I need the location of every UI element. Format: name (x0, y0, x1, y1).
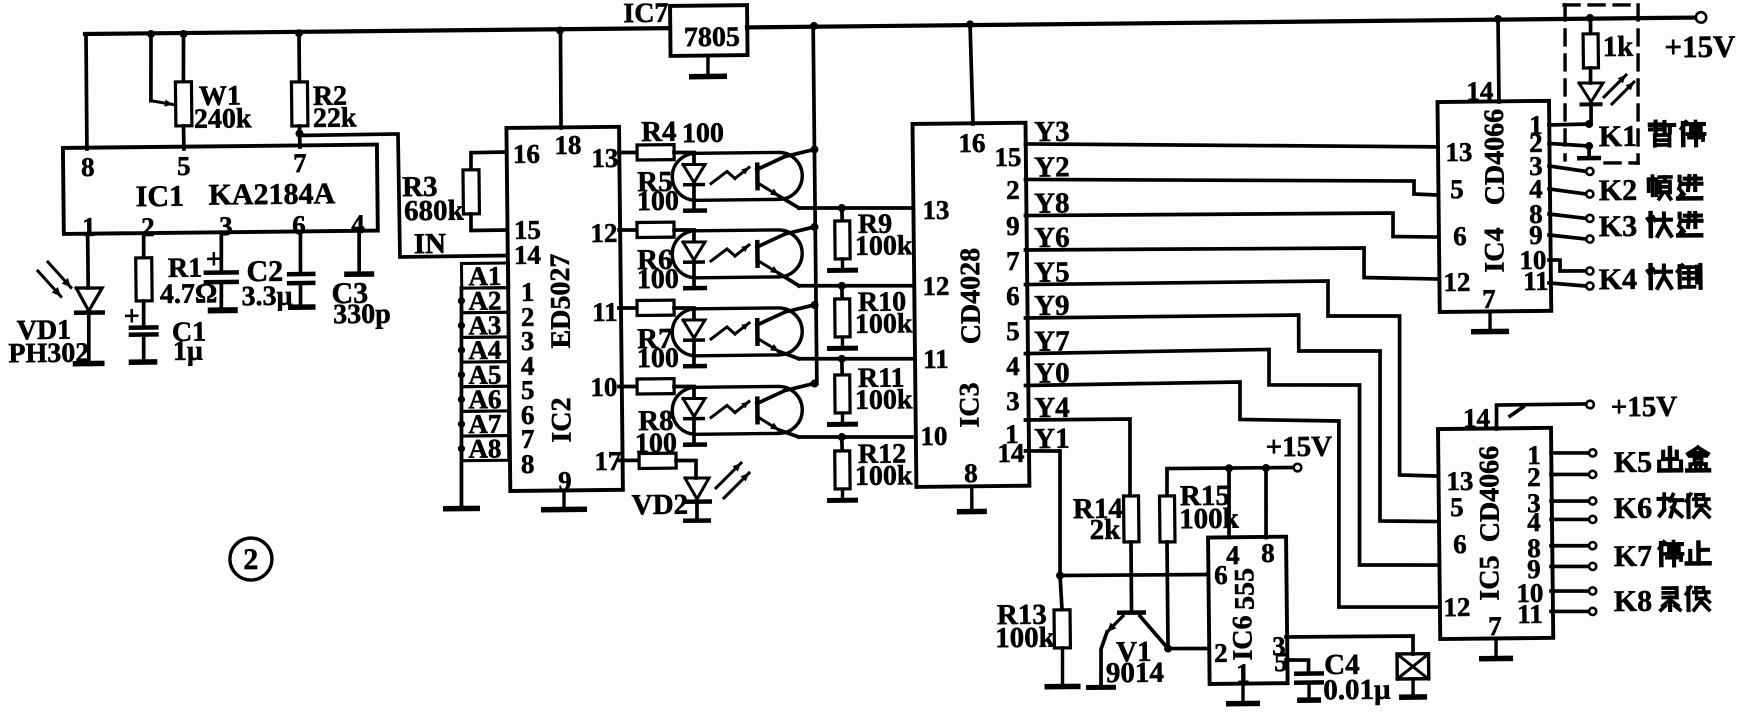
label K3 fast forward (1599, 209, 1702, 243)
terminal IC5 wire 2 (1551, 471, 1596, 479)
svg-text:8: 8 (1261, 538, 1275, 568)
svg-text:+15V: +15V (1611, 391, 1678, 424)
address box A4 (461, 335, 508, 366)
svg-text:100k: 100k (855, 230, 913, 262)
label K5 eject (1614, 445, 1710, 479)
resistor R7 100 (618, 323, 679, 394)
terminal IC5 wire 4 (1551, 516, 1596, 524)
svg-text:1k: 1k (1602, 31, 1634, 63)
terminal IC4 pin wire 3 (1549, 165, 1593, 175)
terminal IC5 wire 1 (1551, 449, 1596, 457)
svg-text:IC6: IC6 (1227, 615, 1258, 660)
wire +15V top rail (85, 17, 1695, 35)
ground IC5 pin7 (1479, 639, 1513, 662)
resistor R8 100 (618, 405, 677, 469)
wire V1 collector to IC6 pin2 (1168, 646, 1208, 651)
terminal IC5 wire 3 (1551, 497, 1596, 505)
svg-text:18: 18 (554, 130, 581, 160)
terminal IC4 pin wire 8 (1549, 282, 1593, 290)
svg-text:14: 14 (997, 438, 1024, 468)
optocoupler row 4 (672, 384, 815, 448)
svg-text:14: 14 (514, 240, 541, 270)
node V1 collector (1164, 645, 1172, 653)
svg-text:12: 12 (1443, 267, 1470, 297)
ground IC6 pin1 (1226, 684, 1260, 707)
svg-text:240k: 240k (194, 103, 252, 135)
figure number 2 circled (230, 538, 272, 580)
resistor R5 100 (618, 166, 679, 238)
svg-text:IC1: IC1 (135, 180, 184, 214)
svg-text:13: 13 (591, 143, 618, 173)
ground IC4 pin7 (1471, 312, 1509, 335)
wire opto3 emitter to IC3 (799, 358, 912, 360)
svg-text:10: 10 (590, 372, 617, 402)
svg-text:9014: 9014 (1106, 657, 1164, 690)
wire Y1 (1025, 423, 1071, 576)
svg-text:CD4066: CD4066 (1474, 446, 1506, 543)
svg-text:5: 5 (177, 151, 191, 181)
node rail-1k (1586, 14, 1594, 22)
svg-text:680k: 680k (404, 195, 465, 228)
svg-text:100: 100 (682, 118, 724, 149)
svg-text:K6: K6 (1614, 492, 1653, 525)
wire Y2 (1025, 147, 1438, 199)
label K6 play (1614, 491, 1710, 525)
capacitor on IC1 pin6 (286, 232, 316, 310)
svg-text:+: + (124, 301, 140, 332)
svg-text:Y1: Y1 (1034, 423, 1070, 455)
terminal IC4 pin wire 4 (1549, 188, 1593, 198)
capacitor C4 0.01u (1286, 648, 1391, 706)
node R2 bottom junction (295, 129, 303, 137)
svg-text:2: 2 (1006, 175, 1020, 205)
led K1 indicator (1579, 68, 1635, 125)
wire Y7 (1025, 321, 1438, 569)
optocoupler row 3 (672, 305, 815, 369)
label K4 rewind (1599, 262, 1701, 296)
svg-text:Y2: Y2 (1034, 151, 1070, 183)
terminal IC5 wire 6 (1551, 563, 1596, 571)
resistor R2 22k (291, 32, 357, 147)
svg-text:100: 100 (637, 264, 679, 295)
label K7 stop (1614, 539, 1710, 573)
svg-text:+: + (206, 244, 222, 275)
terminal IC5 wire 5 (1551, 542, 1596, 550)
svg-text:4: 4 (1006, 351, 1020, 381)
svg-text:12: 12 (922, 271, 949, 301)
ground IC3 pin8 (957, 487, 987, 515)
svg-text:IC3: IC3 (954, 382, 985, 427)
svg-text:11: 11 (1523, 266, 1549, 296)
node rail-IC4pin14 (1494, 15, 1502, 23)
wire IC3 pin16 to rail (970, 24, 973, 124)
terminal IC4 pin wire 5 (1549, 213, 1593, 222)
svg-text:Y7: Y7 (1034, 325, 1070, 357)
svg-text:100k: 100k (855, 308, 913, 340)
wire Y3 (1025, 112, 1438, 151)
wire +15V local rail IC6 (1167, 431, 1333, 473)
label K1 pause (1599, 119, 1705, 153)
wire IC6 pin8 to +15V (1265, 468, 1266, 538)
node opto3 collector (810, 301, 818, 309)
svg-text:11: 11 (923, 344, 949, 374)
node opto2 collector (810, 223, 818, 231)
address box A5 (461, 359, 508, 390)
node Y1 junction (1056, 571, 1064, 579)
svg-text:Y5: Y5 (1034, 256, 1070, 288)
svg-text:7: 7 (1006, 246, 1020, 276)
svg-text:3: 3 (1006, 386, 1020, 416)
svg-text:IC2: IC2 (546, 397, 577, 442)
svg-text:IC5: IC5 (1474, 555, 1505, 600)
svg-text:Y8: Y8 (1034, 187, 1070, 219)
svg-text:100k: 100k (855, 460, 913, 492)
label K2 frame advance (1599, 173, 1702, 207)
svg-text:K1: K1 (1599, 120, 1638, 153)
capacitor C2 3.3u (pin3 electrolytic) (203, 233, 239, 314)
svg-text:Y9: Y9 (1034, 290, 1070, 322)
wire IC5 pin14 to +15V terminal (1496, 391, 1677, 429)
svg-text:11: 11 (592, 297, 618, 327)
terminal IC4 pin wire 7 (1549, 259, 1593, 275)
address box A7 (461, 409, 508, 440)
svg-text:5: 5 (1450, 492, 1464, 522)
svg-text:3.3μ: 3.3μ (241, 281, 292, 313)
ground IC2 pin9 (541, 491, 587, 513)
svg-text:22k: 22k (313, 102, 357, 133)
address box A1 (461, 261, 508, 292)
svg-text:16: 16 (513, 139, 540, 169)
svg-text:14: 14 (1463, 403, 1490, 433)
node opto1 collector (810, 145, 818, 153)
svg-text:KA2184A: KA2184A (208, 177, 335, 211)
capacitor C3 330p (331, 231, 391, 331)
svg-text:11: 11 (1517, 599, 1543, 629)
resistor R4 100 (619, 115, 725, 160)
address box A3 (461, 310, 508, 341)
svg-text:Y3: Y3 (1034, 116, 1070, 148)
svg-text:K2: K2 (1599, 174, 1638, 207)
wire A-box ground bus (441, 288, 480, 512)
wire IC4 pin14 to rail (1496, 19, 1501, 102)
svg-text:9: 9 (1006, 211, 1020, 241)
svg-text:14: 14 (1466, 76, 1493, 106)
wire R2 junction to IN (299, 133, 506, 258)
wire Y1 junction to IC6 pin6 (1060, 574, 1208, 576)
svg-text:12: 12 (590, 218, 617, 248)
svg-text:+15V: +15V (1265, 431, 1332, 464)
address box A6 (461, 384, 508, 415)
svg-text:VD2: VD2 (632, 489, 689, 522)
wire IC6 pin3 to relay (1286, 636, 1413, 656)
svg-text:6: 6 (1453, 529, 1467, 559)
switch K1 contacts (1549, 120, 1601, 161)
svg-text:8: 8 (521, 449, 535, 479)
resistor R3 680k (402, 152, 507, 231)
node rail-IC3pin16 (966, 20, 974, 28)
node opto4 collector (810, 379, 818, 387)
address box A2 (461, 285, 508, 316)
svg-text:IC7: IC7 (623, 0, 668, 29)
svg-text:100: 100 (637, 343, 679, 374)
svg-text:100: 100 (635, 428, 677, 459)
ic IC5 CD4066 box (1438, 402, 1554, 641)
svg-text:K4: K4 (1599, 263, 1638, 296)
wire opto2 emitter to IC3 (799, 285, 912, 287)
optocoupler row 2 (672, 227, 815, 291)
svg-text:7: 7 (1482, 284, 1496, 314)
svg-text:6: 6 (1006, 281, 1020, 311)
svg-text:7805: 7805 (684, 22, 740, 54)
wire IC6 pin4 to +15V (1228, 468, 1229, 537)
ground IC7 (689, 56, 727, 80)
label K8 record (1614, 584, 1710, 618)
svg-text:13: 13 (922, 195, 949, 225)
resistor R15 100k (1159, 468, 1241, 648)
ic IC6 555 box (1208, 537, 1288, 689)
svg-text:100: 100 (637, 186, 679, 217)
svg-text:A8: A8 (468, 433, 501, 463)
svg-text:10: 10 (920, 421, 947, 451)
node rail-W1top (179, 30, 187, 38)
wire IC1 pin8 to rail (86, 34, 88, 149)
svg-text:K7: K7 (1614, 540, 1653, 573)
svg-text:PH302: PH302 (8, 338, 89, 370)
led VD2 infrared (631, 460, 749, 524)
svg-text:12: 12 (1443, 592, 1470, 622)
ic IC4 CD4066 box (1437, 75, 1551, 314)
resistor R13 100k (994, 575, 1080, 690)
terminal IC5 wire 8 (1551, 608, 1596, 616)
node rail-R2 (295, 29, 303, 37)
ic IC7 7805 regulator (623, 0, 747, 56)
svg-text:2: 2 (1214, 638, 1228, 668)
svg-text:6: 6 (1453, 221, 1467, 251)
svg-text:IN: IN (414, 228, 447, 260)
svg-text:330p: 330p (333, 299, 391, 331)
svg-text:CD4028: CD4028 (955, 248, 987, 345)
wire Y8 (1025, 183, 1438, 241)
wire opto1 emitter to IC3 (799, 207, 912, 209)
svg-text:100k: 100k (995, 622, 1056, 655)
terminal +15V top right (1664, 12, 1736, 65)
svg-text:555: 555 (1229, 568, 1260, 610)
potentiometer W1 240k (150, 33, 252, 149)
terminal IC4 pin wire 6 (1549, 234, 1593, 243)
svg-text:K5: K5 (1614, 446, 1653, 479)
wire Y6 (1025, 218, 1438, 284)
svg-text:R4: R4 (641, 116, 677, 148)
dashed box remote pause indicator (1563, 4, 1639, 164)
svg-text:6: 6 (1214, 560, 1228, 590)
svg-text:Y0: Y0 (1034, 357, 1070, 389)
svg-text:8: 8 (81, 152, 95, 182)
resistor 1k (1583, 18, 1634, 68)
node rail-W1wiper (147, 30, 155, 38)
resistor R11 100k (826, 354, 913, 427)
node rail-IC2pin18 (556, 26, 564, 34)
wire Y4 (1025, 391, 1131, 498)
svg-text:8: 8 (964, 458, 978, 488)
transistor V1 9014 (1085, 610, 1168, 690)
svg-text:CD4066: CD4066 (1479, 109, 1511, 206)
address box A8 (461, 433, 508, 464)
svg-text:IC4: IC4 (1479, 227, 1510, 272)
svg-text:5: 5 (1450, 174, 1464, 204)
wire Y0 (1025, 353, 1438, 611)
optocoupler row 1 (672, 150, 815, 214)
label IN (414, 228, 447, 260)
photodiode VD1 PH302 (7, 234, 105, 370)
resistor R9 100k (826, 203, 913, 273)
svg-text:100k: 100k (855, 384, 913, 416)
svg-text:Y4: Y4 (1034, 392, 1070, 424)
svg-text:0.01μ: 0.01μ (1323, 674, 1391, 707)
svg-text:5: 5 (1274, 647, 1288, 677)
svg-text:4: 4 (1226, 540, 1240, 570)
resistor R14 2k (1073, 493, 1140, 612)
node rail-optobus (810, 22, 818, 30)
wire Y5 (1025, 252, 1438, 480)
svg-text:+15V: +15V (1664, 29, 1736, 65)
svg-text:K8: K8 (1614, 585, 1653, 618)
svg-text:2: 2 (243, 543, 258, 576)
resistor R10 100k (826, 281, 913, 351)
ic IC2 ED5027 box (506, 127, 623, 497)
relay K box (1397, 654, 1429, 700)
wire optocoupler collector bus (813, 26, 817, 383)
svg-text:K3: K3 (1599, 210, 1638, 243)
svg-text:7: 7 (1488, 611, 1502, 641)
ic IC1 KA2184A box (63, 145, 378, 243)
resistor R6 100 (618, 244, 679, 316)
wire Y9 (1025, 286, 1438, 526)
svg-text:1μ: 1μ (173, 336, 203, 367)
svg-text:13: 13 (1445, 137, 1472, 167)
svg-text:15: 15 (994, 142, 1021, 172)
svg-text:16: 16 (958, 128, 985, 158)
ic IC3 CD4028 box (913, 123, 1030, 489)
label C2 3.3u (241, 255, 293, 313)
resistor R12 100k (826, 432, 913, 503)
resistor R1 4.7ohm (135, 233, 217, 310)
capacitor C1 1u (124, 300, 207, 367)
svg-text:ED5027: ED5027 (545, 253, 577, 348)
svg-text:7: 7 (293, 148, 307, 178)
wire opto4 emitter to IC3 (799, 436, 912, 438)
terminal IC5 wire 7 (1551, 587, 1596, 595)
svg-text:2k: 2k (1089, 514, 1121, 546)
wire IC2 pin18 to rail (560, 31, 562, 128)
svg-text:5: 5 (1006, 316, 1020, 346)
svg-text:Y6: Y6 (1034, 222, 1070, 254)
